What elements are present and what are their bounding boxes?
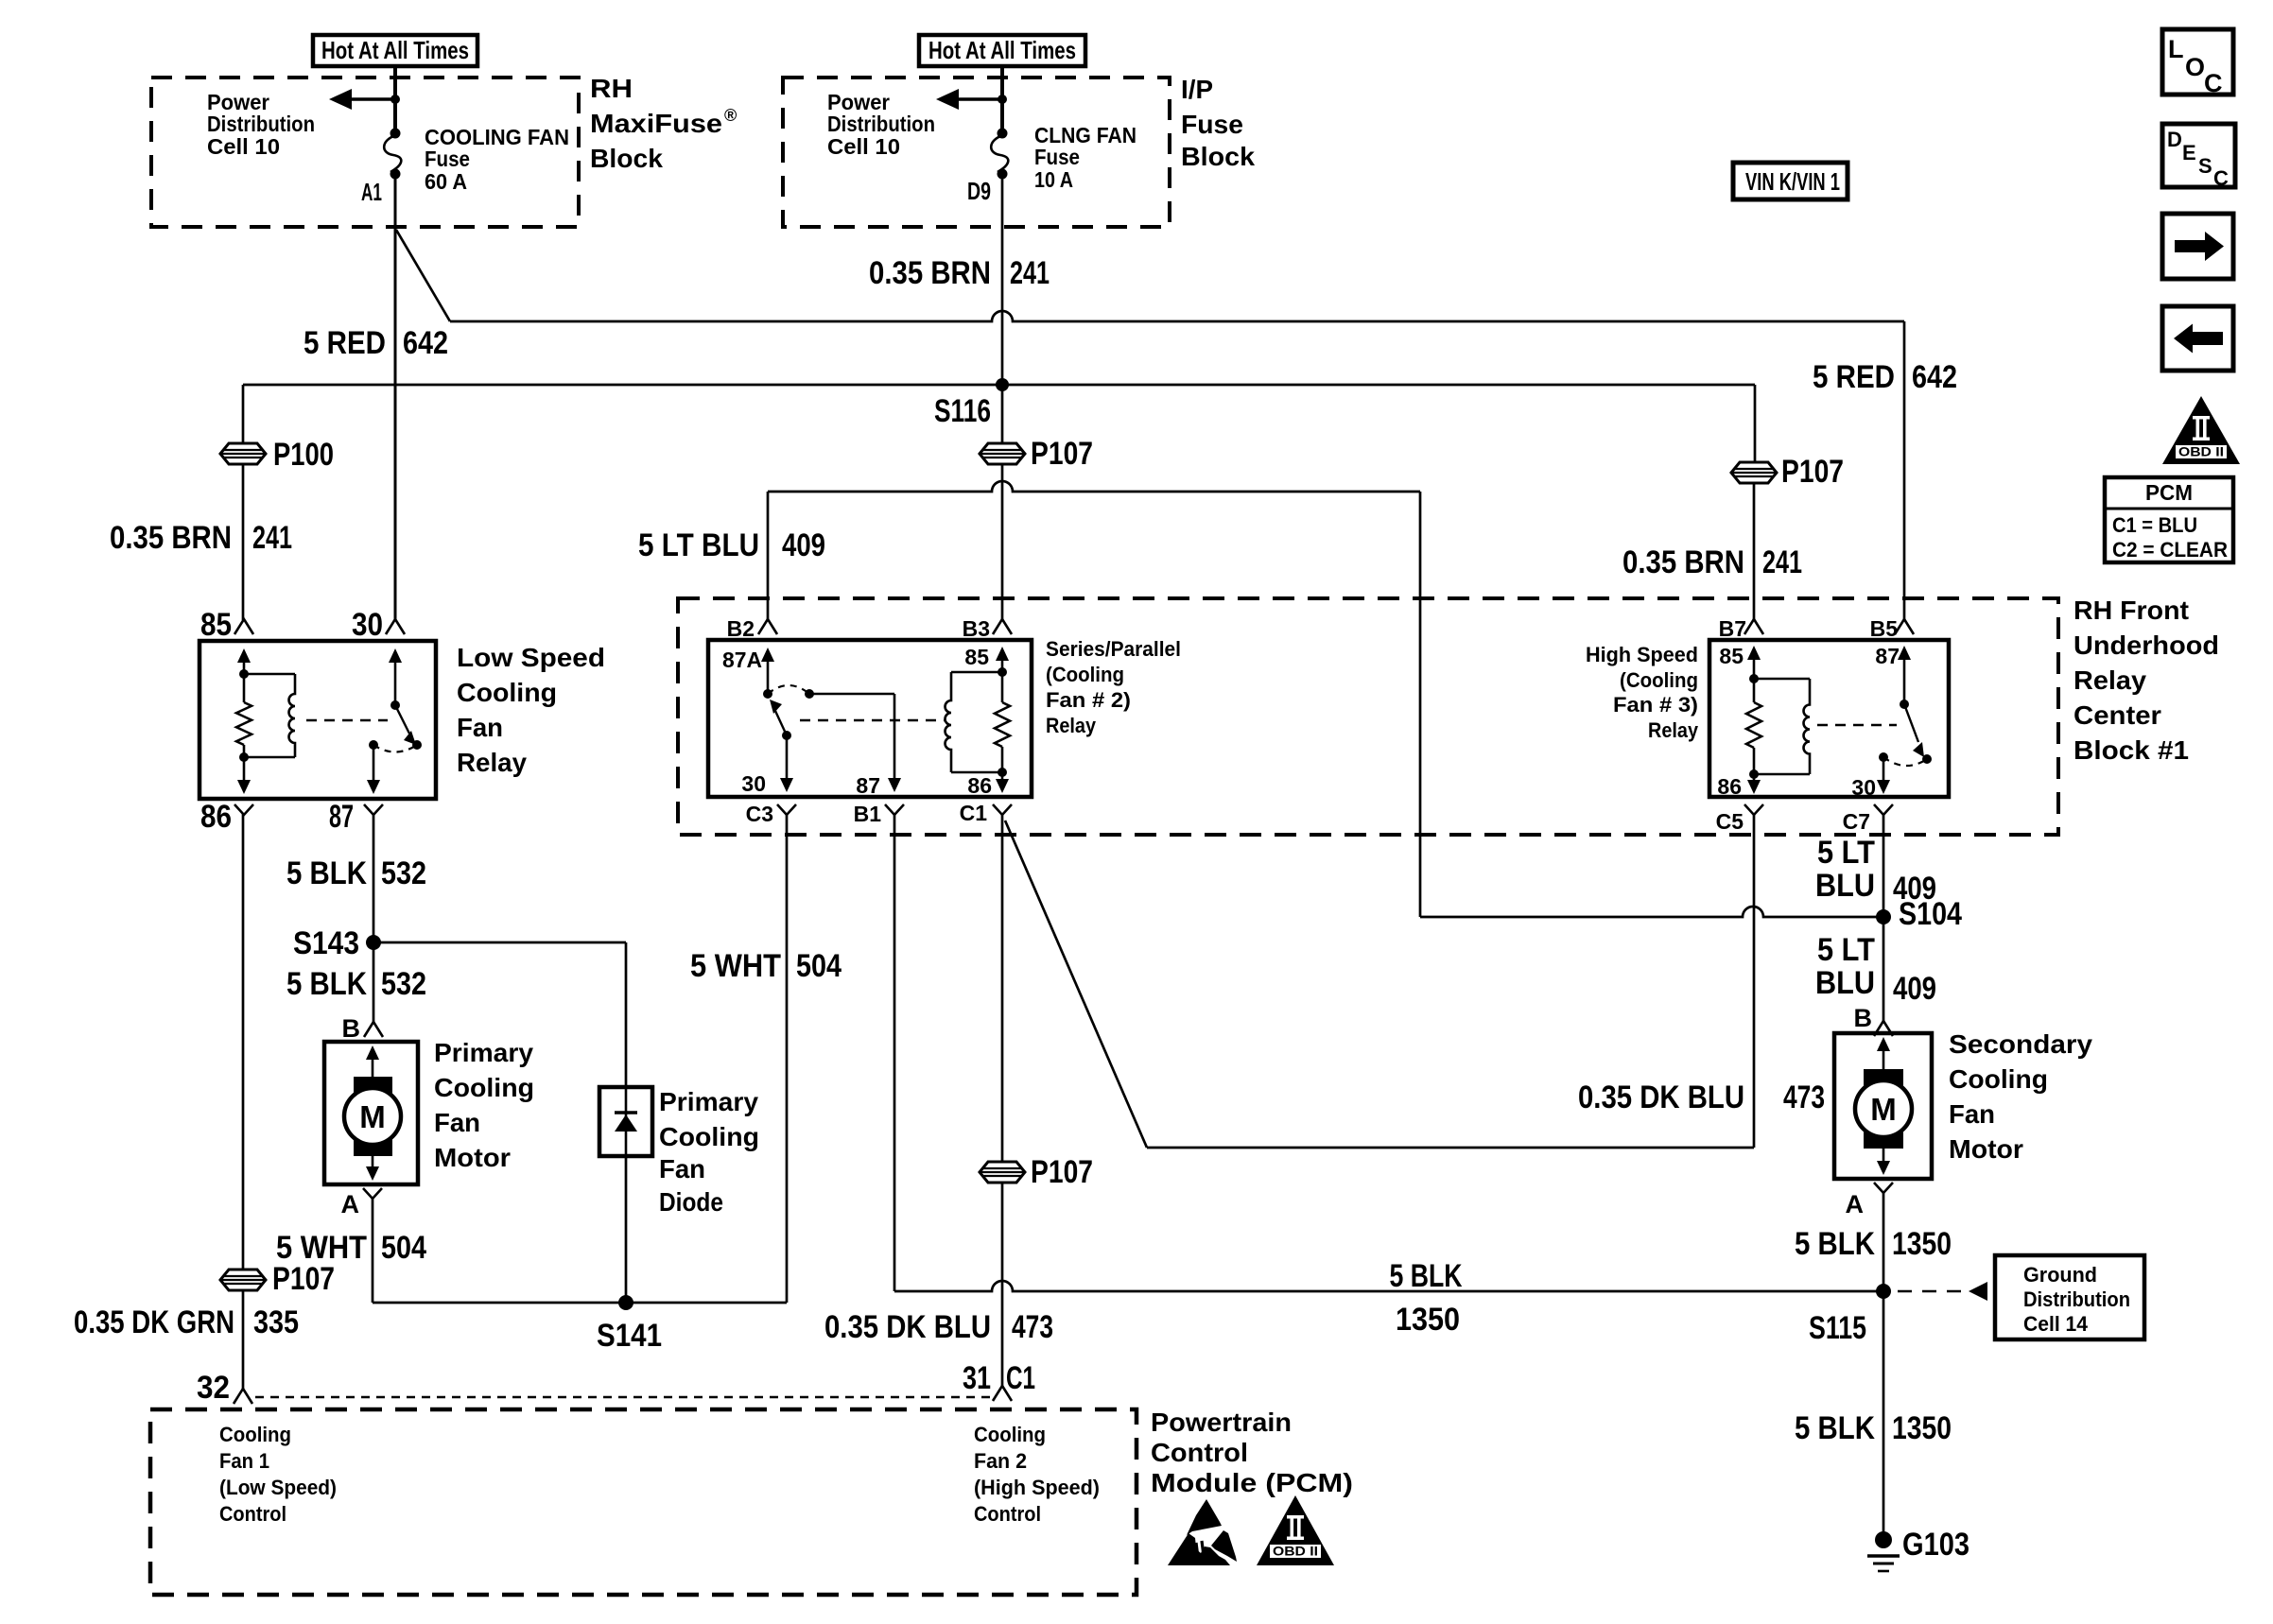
label 5 LT BLU 409 (above S104) xyxy=(1815,835,1936,907)
junction box label Hot At All Times (left) xyxy=(313,35,477,66)
PCM internal dashed link pins 32 to 31 xyxy=(255,1396,991,1398)
svg-text:85: 85 xyxy=(200,607,232,643)
label CLNG FAN Fuse 10 A xyxy=(1034,123,1136,192)
relay K3 terminal 86 arrow xyxy=(1717,774,1761,799)
svg-text:C1: C1 xyxy=(1006,1360,1035,1396)
svg-text:0.35 DK GRN: 0.35 DK GRN xyxy=(74,1304,234,1340)
svg-text:B3: B3 xyxy=(963,616,990,641)
svg-text:532: 532 xyxy=(381,966,426,1002)
svg-text:A: A xyxy=(1846,1190,1865,1218)
svg-text:S116: S116 xyxy=(934,393,991,429)
motor M1 feed arrow top xyxy=(366,1045,379,1078)
icon left arrow box xyxy=(2162,306,2233,371)
label COOLING FAN Fuse 60 A xyxy=(425,125,569,194)
svg-text:86: 86 xyxy=(967,773,992,798)
relay K2 switch arm xyxy=(770,689,814,740)
svg-text:Module (PCM): Module (PCM) xyxy=(1151,1468,1353,1497)
svg-text:BLU: BLU xyxy=(1815,965,1875,1001)
terminal C7 caret (relay K3) xyxy=(1843,804,1893,834)
connector P100 xyxy=(220,437,334,473)
svg-text:Fuse: Fuse xyxy=(425,147,470,171)
relay K3 High Speed relay box xyxy=(1709,640,1949,797)
svg-text:I/P: I/P xyxy=(1181,75,1213,104)
svg-text:A: A xyxy=(341,1190,360,1218)
relay K1 linkage dashed xyxy=(306,719,388,721)
relay K1 coil arrow 86 xyxy=(237,757,251,794)
wire 5 RED 642 right vertical down to relay terminal B5 xyxy=(1903,321,1906,620)
svg-text:(Low Speed): (Low Speed) xyxy=(219,1476,337,1499)
svg-text:87: 87 xyxy=(1875,644,1900,668)
svg-text:Ground: Ground xyxy=(2023,1263,2097,1287)
svg-text:B: B xyxy=(342,1014,361,1043)
relay K2 common to 87 route xyxy=(809,694,894,779)
label 0.35 DK GRN 335 xyxy=(74,1304,299,1340)
terminal C1 caret (relay K2) xyxy=(960,801,1012,825)
svg-text:P107: P107 xyxy=(1031,1154,1093,1190)
relay K2 terminal 86 arrow xyxy=(967,772,1009,798)
label Primary Cooling Fan Diode xyxy=(659,1087,759,1217)
svg-text:D: D xyxy=(2167,128,2182,151)
label 5 BLK 532 (lower) xyxy=(286,966,426,1002)
icon right arrow box xyxy=(2162,214,2233,279)
wire 0.35 BRN 241 from fuse D9 down to S116 and P107 xyxy=(1001,174,1004,443)
wire 5 RED 642 from A1 down to relay terminal 30 xyxy=(394,174,397,620)
wire 5 BLK 1350 from motor A to S115 xyxy=(1883,1193,1885,1291)
svg-text:30: 30 xyxy=(1851,775,1876,800)
wire 0.35 DK BLU 473 from relay K3 C5 down xyxy=(1753,814,1756,1148)
relay K2 Series/Parallel relay box xyxy=(708,640,1032,797)
svg-text:Block #1: Block #1 xyxy=(2073,735,2189,765)
pin 32 caret (PCM) xyxy=(197,1370,252,1406)
terminal 85 caret (relay K1) xyxy=(200,607,253,643)
svg-text:473: 473 xyxy=(1783,1080,1825,1115)
svg-text:409: 409 xyxy=(1893,971,1936,1007)
label Powertrain Control Module (PCM) xyxy=(1151,1408,1353,1497)
wire 0.35 DK BLU 473 diagonal to relay K2 C1 xyxy=(1005,821,1147,1148)
label 0.35 DK BLU 473 (right) xyxy=(1578,1080,1825,1115)
svg-text:5 BLK: 5 BLK xyxy=(1795,1410,1875,1446)
svg-text:5 LT: 5 LT xyxy=(1817,835,1875,871)
power distribution arrow (left) xyxy=(329,89,400,110)
relay K2 switch dashed arc xyxy=(768,685,809,694)
svg-text:RH Front: RH Front xyxy=(2073,596,2189,625)
svg-text:30: 30 xyxy=(352,607,383,643)
wire from diode down to S141 xyxy=(625,1156,628,1303)
connector P107 (middle) xyxy=(980,436,1093,472)
wire 0.35 BRN 241 left branch down to P100 xyxy=(242,385,245,443)
wire 5 WHT 504 from primary motor A down xyxy=(372,1199,374,1303)
svg-text:Fuse: Fuse xyxy=(1181,110,1243,139)
svg-text:OBD II: OBD II xyxy=(2178,445,2224,459)
relay K3 terminal 30 arrow xyxy=(1851,752,1890,800)
svg-text:Fan # 2): Fan # 2) xyxy=(1046,688,1131,712)
svg-text:Fuse: Fuse xyxy=(1034,145,1080,169)
icon DESC box xyxy=(2162,124,2235,190)
svg-text:87A: 87A xyxy=(722,648,762,672)
wire bold feed from Hot At All Times to fuse D9 xyxy=(1000,66,1004,133)
relay center block dashed box RH Front Underhood Relay Center Block #1 xyxy=(678,598,2058,835)
svg-text:0.35 BRN: 0.35 BRN xyxy=(869,255,991,291)
svg-text:S143: S143 xyxy=(293,925,359,961)
label I/P Fuse Block xyxy=(1181,75,1255,171)
svg-text:MaxiFuse: MaxiFuse xyxy=(590,109,722,138)
relay K2 coil xyxy=(946,672,1002,772)
svg-text:Fan: Fan xyxy=(659,1154,705,1183)
motor M1 symbol xyxy=(344,1077,401,1156)
svg-text:Primary: Primary xyxy=(659,1087,758,1116)
svg-text:86: 86 xyxy=(200,799,232,835)
svg-text:Relay: Relay xyxy=(1648,718,1699,742)
wire 0.35 DK BLU 473 horizontal xyxy=(1147,1147,1754,1149)
svg-text:Block: Block xyxy=(1181,142,1255,171)
svg-text:B5: B5 xyxy=(1870,616,1899,641)
splice S116 xyxy=(934,378,1009,429)
svg-text:0.35 DK BLU: 0.35 DK BLU xyxy=(824,1309,991,1345)
svg-text:Cooling: Cooling xyxy=(659,1122,759,1151)
svg-text:O: O xyxy=(2185,53,2205,81)
label RH MaxiFuse Block xyxy=(590,74,737,173)
terminal 86 caret (relay K1) xyxy=(200,799,253,835)
svg-text:Cooling: Cooling xyxy=(974,1423,1046,1446)
terminal B2 caret (relay K2) xyxy=(727,616,777,641)
svg-text:C3: C3 xyxy=(746,802,773,826)
svg-text:Cell 14: Cell 14 xyxy=(2023,1312,2089,1336)
svg-text:Low Speed: Low Speed xyxy=(457,643,605,672)
pin D9 xyxy=(967,177,991,205)
relay K3 switch arm xyxy=(1904,704,1932,764)
icon OBD II triangle (PCM) xyxy=(1257,1495,1334,1565)
svg-text:High Speed: High Speed xyxy=(1586,643,1698,666)
svg-text:241: 241 xyxy=(1010,255,1050,291)
svg-text:Hot At All Times: Hot At All Times xyxy=(321,36,469,64)
svg-text:(Cooling: (Cooling xyxy=(1620,668,1698,692)
icon OBD II triangle (legend) xyxy=(2162,396,2240,464)
svg-text:Cell 10: Cell 10 xyxy=(207,134,280,159)
svg-text:504: 504 xyxy=(796,948,842,984)
svg-text:5 RED: 5 RED xyxy=(1813,359,1895,395)
wire 5 RED 642 diagonal from A1 to top horizontal run xyxy=(396,230,450,321)
label High Speed (Cooling Fan # 3) Relay xyxy=(1586,643,1699,742)
svg-text:Cooling: Cooling xyxy=(219,1423,291,1446)
svg-text:B: B xyxy=(1854,1004,1873,1032)
svg-text:VIN K/VIN 1: VIN K/VIN 1 xyxy=(1745,167,1840,196)
svg-text:Distribution: Distribution xyxy=(2023,1287,2130,1311)
svg-text:S141: S141 xyxy=(597,1318,662,1354)
label Primary Cooling Fan Motor xyxy=(434,1038,534,1172)
svg-text:241: 241 xyxy=(1762,544,1802,580)
svg-text:Center: Center xyxy=(2073,700,2161,730)
relay K2 terminal 87 arrow xyxy=(856,773,901,798)
svg-text:1350: 1350 xyxy=(1892,1410,1952,1446)
svg-text:Hot At All Times: Hot At All Times xyxy=(928,36,1076,64)
label Power Distribution Cell 10 (middle) xyxy=(827,90,935,159)
svg-text:M: M xyxy=(359,1099,386,1134)
wire 5 RED 642 horizontal run to right (hop over BRN wire) xyxy=(450,311,1904,321)
svg-text:B7: B7 xyxy=(1719,616,1746,641)
terminal B caret (primary motor) xyxy=(342,1014,384,1043)
label RH Front Underhood Relay Center Block #1 xyxy=(2073,596,2219,765)
label 5 BLK 532 (upper) xyxy=(286,855,426,891)
label 5 WHT 504 (middle) xyxy=(690,948,842,984)
svg-text:S: S xyxy=(2198,154,2212,178)
connector P107 (right) xyxy=(1731,454,1844,490)
svg-text:P100: P100 xyxy=(273,437,334,473)
svg-text:S115: S115 xyxy=(1809,1310,1866,1346)
terminal B caret (secondary motor) xyxy=(1854,1004,1894,1036)
connector P107 (left) xyxy=(220,1261,335,1297)
terminal C5 caret (relay K3) xyxy=(1716,804,1763,834)
terminal C3 caret (relay K2) xyxy=(746,802,796,826)
svg-text:87: 87 xyxy=(856,773,880,798)
svg-text:241: 241 xyxy=(252,520,292,556)
svg-text:B2: B2 xyxy=(727,616,755,641)
connector P107 (lower middle) xyxy=(980,1154,1093,1190)
svg-text:Fan # 3): Fan # 3) xyxy=(1613,693,1698,717)
label 0.35 BRN 241 (right) xyxy=(1622,544,1802,580)
wire 5 LT BLU 409 vertical mid segment xyxy=(1419,492,1422,917)
svg-text:0.35 BRN: 0.35 BRN xyxy=(1622,544,1744,580)
svg-text:409: 409 xyxy=(782,527,825,563)
svg-text:Fan: Fan xyxy=(457,713,503,742)
svg-text:Control: Control xyxy=(974,1502,1041,1526)
svg-text:Fan 2: Fan 2 xyxy=(974,1449,1027,1473)
svg-text:Diode: Diode xyxy=(659,1187,723,1217)
icon ESD warning triangle xyxy=(1168,1499,1237,1565)
svg-text:Control: Control xyxy=(219,1502,286,1526)
svg-text:L: L xyxy=(2168,35,2184,63)
junction box label Hot At All Times (middle) xyxy=(919,35,1085,66)
svg-text:5 BLK: 5 BLK xyxy=(286,966,367,1002)
label 5 LT BLU 409 xyxy=(638,527,825,563)
svg-text:Series/Parallel: Series/Parallel xyxy=(1046,637,1181,661)
ground reference dashed arrow to Ground Distribution Cell 14 xyxy=(1898,1282,1987,1301)
terminal B7 caret (relay K3) xyxy=(1719,616,1763,641)
motor M2 Secondary Cooling Fan Motor box xyxy=(1834,1033,1932,1179)
wire 0.35 BRN 241 right branch down to P107 (right) xyxy=(1754,385,1757,462)
svg-text:M: M xyxy=(1870,1092,1897,1127)
label Secondary Cooling Fan Motor xyxy=(1949,1029,2092,1164)
wire 5 LT BLU 409 horizontal run from B2 to right (hop over BRN) xyxy=(768,481,1420,492)
splice S141 xyxy=(597,1295,662,1354)
relay K1 terminal 87 arrow xyxy=(367,740,380,794)
terminal A caret (secondary motor) xyxy=(1846,1183,1894,1218)
relay K3 resistor xyxy=(1746,679,1761,779)
motor M2 symbol xyxy=(1855,1069,1912,1149)
svg-text:Distribution: Distribution xyxy=(827,112,935,136)
svg-text:OBD II: OBD II xyxy=(1273,1545,1318,1559)
relay K1 terminal 30 arrow xyxy=(389,648,402,705)
fuse block RH MaxiFuse dashed box xyxy=(151,78,579,227)
splice S143 xyxy=(293,925,381,961)
power distribution arrow (middle) xyxy=(936,89,1007,110)
fuse CLNG FAN 10 A element xyxy=(991,129,1008,180)
wire 5 BLK 1350 from S115 down to G103 xyxy=(1883,1291,1885,1539)
wire 5 BLK 1350 from relay K2 terminal B1 down xyxy=(894,814,896,1291)
svg-text:532: 532 xyxy=(381,855,426,891)
fuse block I/P dashed box xyxy=(783,78,1170,227)
wire diode branch from S143 xyxy=(373,942,626,1087)
terminal 87 caret (relay K1) xyxy=(329,799,383,835)
splice S104 xyxy=(1876,896,1962,932)
motor M2 feed arrow top xyxy=(1877,1037,1890,1069)
svg-text:Fan: Fan xyxy=(434,1108,480,1137)
splice S115 xyxy=(1809,1284,1891,1346)
svg-text:60 A: 60 A xyxy=(425,169,467,194)
svg-text:Cooling: Cooling xyxy=(434,1073,534,1102)
legend PCM connector box xyxy=(2105,477,2233,562)
svg-text:409: 409 xyxy=(1893,871,1936,907)
svg-text:87: 87 xyxy=(329,799,354,835)
wire 5 LT BLU 409 from relay C7 down to S104 xyxy=(1883,814,1885,917)
wire 5 LT BLU 409 from S104 down to secondary motor B xyxy=(1883,917,1885,1021)
wire 5 BLK 532 from relay K1 terminal 87 down to S143 xyxy=(373,814,375,942)
svg-text:®: ® xyxy=(724,106,737,125)
relay K3 linkage dashed xyxy=(1817,724,1897,726)
relay K2 terminal 87A arrow xyxy=(722,648,774,699)
svg-text:30: 30 xyxy=(741,771,766,796)
label 0.35 BRN 241 (left) xyxy=(110,520,292,556)
wire 0.35 BRN 241 from P107 down to relay terminal B3 xyxy=(1001,464,1004,620)
wire 0.35 DK GRN 335 from P107 to PCM pin 32 xyxy=(242,1290,245,1389)
label VIN K/VIN 1 box xyxy=(1733,163,1848,199)
svg-text:Motor: Motor xyxy=(434,1143,511,1172)
svg-text:1350: 1350 xyxy=(1396,1302,1460,1338)
wire 0.35 BRN 241 from P107 right down to relay terminal B7 xyxy=(1753,483,1756,620)
PCM dashed box Powertrain Control Module xyxy=(150,1409,1136,1595)
svg-text:642: 642 xyxy=(403,325,448,361)
motor M2 exit arrow bottom xyxy=(1877,1149,1890,1175)
terminal A caret (primary motor) xyxy=(341,1188,383,1218)
terminal B1 caret (relay K2) xyxy=(854,802,904,826)
svg-text:Cooling: Cooling xyxy=(1949,1064,2048,1094)
pin 31 caret (PCM) xyxy=(963,1360,1035,1401)
label 5 BLK 1350 (upper right) xyxy=(1795,1226,1952,1262)
svg-text:Fan: Fan xyxy=(1949,1099,1995,1129)
svg-text:Fan 1: Fan 1 xyxy=(219,1449,269,1473)
svg-text:G103: G103 xyxy=(1902,1527,1969,1563)
svg-text:31: 31 xyxy=(963,1360,991,1396)
svg-text:Relay: Relay xyxy=(2073,665,2146,695)
svg-text:B1: B1 xyxy=(854,802,882,826)
svg-text:A1: A1 xyxy=(361,178,382,206)
relay K1 switch dashed arc xyxy=(373,745,417,752)
label 5 BLK 1350 (lower right) xyxy=(1795,1410,1952,1446)
relay K2 terminal 30 arrow xyxy=(741,735,793,796)
svg-text:P107: P107 xyxy=(272,1261,335,1297)
svg-text:504: 504 xyxy=(381,1230,426,1266)
terminal B3 caret (relay K2) xyxy=(963,616,1012,641)
svg-text:C1 = BLU: C1 = BLU xyxy=(2112,513,2197,537)
svg-text:C1: C1 xyxy=(960,801,988,825)
svg-text:PCM: PCM xyxy=(2145,480,2193,505)
wire bold feed from Hot At All Times to fuse A1 xyxy=(393,66,397,133)
svg-text:473: 473 xyxy=(1012,1309,1053,1345)
relay K2 linkage dashed xyxy=(800,719,946,721)
svg-text:Secondary: Secondary xyxy=(1949,1029,2092,1059)
svg-text:86: 86 xyxy=(1717,774,1742,799)
svg-text:Control: Control xyxy=(1151,1438,1248,1467)
svg-text:335: 335 xyxy=(253,1304,299,1340)
svg-text:Relay: Relay xyxy=(1046,714,1097,737)
relay K1 coil arrow 85 xyxy=(237,648,251,674)
svg-text:Block: Block xyxy=(590,144,663,173)
label 0.35 DK BLU 473 (bottom) xyxy=(824,1309,1053,1345)
label Power Distribution Cell 10 (left) xyxy=(207,90,315,159)
relay K1 Low Speed Cooling Fan Relay box xyxy=(200,641,436,799)
label 5 RED 642 (right) xyxy=(1813,359,1957,395)
svg-text:Distribution: Distribution xyxy=(207,112,315,136)
label 5 WHT 504 (bottom left) xyxy=(276,1230,426,1266)
svg-text:5 BLK: 5 BLK xyxy=(1390,1258,1463,1294)
label Series/Parallel (Cooling Fan # 2) Relay xyxy=(1046,637,1181,737)
relay K1 switch pivot and arm xyxy=(390,700,422,750)
relay K2 terminal 85 arrow xyxy=(964,645,1009,677)
wire 5 WHT 504 horizontal through S141 xyxy=(373,1302,787,1304)
wire 5 LT BLU 409 down to relay terminal B2 xyxy=(767,492,770,620)
svg-text:Cell 10: Cell 10 xyxy=(827,134,900,159)
label 0.35 BRN 241 (top middle) xyxy=(869,255,1050,291)
svg-text:BLU: BLU xyxy=(1815,868,1875,904)
svg-text:D9: D9 xyxy=(967,177,991,205)
wire 5 BLK 532 from S143 to primary motor B xyxy=(373,942,375,1022)
pin A1 xyxy=(361,178,382,206)
svg-text:1350: 1350 xyxy=(1892,1226,1952,1262)
svg-text:P107: P107 xyxy=(1031,436,1093,472)
wire 0.35 DK GRN 335 from relay K1 terminal 86 down xyxy=(242,814,245,1270)
svg-text:5 WHT: 5 WHT xyxy=(690,948,781,984)
svg-text:Powertrain: Powertrain xyxy=(1151,1408,1292,1437)
wire 0.35 BRN 241 horizontal S116 run xyxy=(243,384,1755,387)
wire 5 BLK 1350 horizontal from relay K2 B1 (hop over DK BLU) xyxy=(894,1281,1883,1291)
fuse COOLING FAN 60 A element xyxy=(384,129,401,180)
svg-text:(High Speed): (High Speed) xyxy=(974,1476,1100,1499)
relay K1 coil xyxy=(239,669,295,762)
svg-text:5 LT: 5 LT xyxy=(1817,932,1875,968)
svg-text:642: 642 xyxy=(1912,359,1957,395)
label Cooling Fan 2 (High Speed) Control xyxy=(974,1423,1100,1526)
svg-text:C: C xyxy=(2204,69,2223,97)
diode D1 symbol xyxy=(615,1087,637,1156)
wire 0.35 BRN 241 from P100 down to relay terminal 85 xyxy=(242,464,245,620)
svg-text:5 BLK: 5 BLK xyxy=(286,855,367,891)
svg-text:(Cooling: (Cooling xyxy=(1046,663,1124,686)
svg-text:85: 85 xyxy=(964,645,989,669)
svg-text:Cooling: Cooling xyxy=(457,678,557,707)
svg-text:Motor: Motor xyxy=(1949,1134,2023,1164)
wire 5 WHT 504 up to relay K2 terminal C3 xyxy=(786,814,789,1303)
label 5 RED 642 (left) xyxy=(304,325,448,361)
svg-text:32: 32 xyxy=(197,1370,230,1406)
ground G103 xyxy=(1867,1527,1969,1571)
relay K2 resistor xyxy=(995,672,1010,777)
label Low Speed Cooling Fan Relay xyxy=(457,643,605,777)
svg-text:C: C xyxy=(2213,166,2229,190)
wire 0.35 DK BLU 473 from relay K2 C1 down to PCM pin 31 xyxy=(1001,814,1004,1386)
relay K3 terminal 85 arrow xyxy=(1719,644,1761,683)
label 5 BLK 1350 (stacked mid) xyxy=(1390,1258,1463,1338)
motor M1 Primary Cooling Fan Motor box xyxy=(324,1042,418,1184)
svg-text:E: E xyxy=(2182,141,2196,164)
relay K3 switch dashed arc xyxy=(1883,757,1927,766)
terminal B5 caret (relay K3) xyxy=(1870,616,1914,641)
label 5 LT BLU 409 (below S104) xyxy=(1815,932,1936,1007)
svg-text:C5: C5 xyxy=(1716,809,1744,834)
svg-text:C7: C7 xyxy=(1843,809,1870,834)
diode D1 Primary Cooling Fan Diode box xyxy=(599,1087,652,1156)
svg-text:5 BLK: 5 BLK xyxy=(1795,1226,1875,1262)
svg-text:C2 = CLEAR: C2 = CLEAR xyxy=(2112,538,2228,561)
svg-text:5 RED: 5 RED xyxy=(304,325,386,361)
